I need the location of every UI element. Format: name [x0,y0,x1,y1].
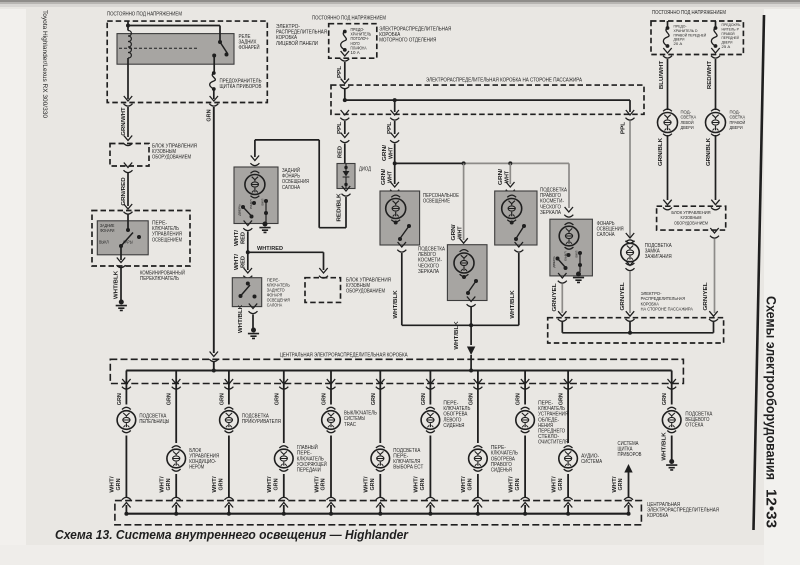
fuse D правой передней двери [667,21,669,27]
svg-text:ОБОРУДОВАНИЕМ: ОБОРУДОВАНИЕМ [152,155,191,161]
svg-text:PPL: PPL [337,121,343,134]
node: return bus junction (аудиосистема) [566,512,570,516]
svg-text:ПЕРЕДАЧИ: ПЕРЕДАЧИ [297,468,321,474]
svg-text:WHT/: WHT/ [267,476,273,493]
svg-text:GRN: GRN [662,393,668,405]
svg-text:ПОД-: ПОД- [681,110,692,116]
wire to return bus (подсветка пепельницы) [125,436,127,498]
svg-text:НА СТОРОНЕ ПАССАЖИРА: НА СТОРОНЕ ПАССАЖИРА [641,307,694,313]
sidebar divider line [754,15,765,530]
wire GRN drop (подсветка прикуривателя) [228,371,230,405]
svg-text:РАСПРЕДЕЛИТЕЛЬНАЯ: РАСПРЕДЕЛИТЕЛЬНАЯ [641,296,686,302]
svg-text:СИДЕНЬЯ: СИДЕНЬЯ [443,423,464,429]
wire to return bus (главный переключатель ускоряющей передачи) [283,474,285,497]
svg-text:ВЫКЛ: ВЫКЛ [564,251,568,260]
wire to return bus (переключатель обогрева правого сиденья) [477,474,479,497]
svg-text:ОБОРУДОВАНИЕМ: ОБОРУДОВАНИЕМ [346,289,385,295]
connector into body control box [124,136,133,146]
svg-text:WHT: WHT [388,146,394,159]
connector below right mirror box [514,242,523,252]
svg-text:БЛОК УПРАВЛЕНИЯ: БЛОК УПРАВЛЕНИЯ [671,210,711,216]
node: return bus junction (подсветка переключателя выбора ECT) [378,512,382,516]
node: return bus junction (выключатель системы TRAC) [329,512,333,516]
svg-text:12•33: 12•33 [763,489,780,528]
svg-text:WHT/: WHT/ [461,476,467,493]
lamp: переключатель обогрева правого сиденья [474,446,483,448]
relay internal dashed link [119,47,197,49]
svg-text:НЕРОМ: НЕРОМ [189,465,204,471]
wire to ground (rear-lamp switch) [252,315,254,329]
wire RED/WHT down [715,59,717,110]
node: GRN feed junction [212,369,216,373]
svg-text:GRN: GRN [219,478,225,490]
svg-text:GRN: GRN [166,478,172,490]
relay switch contact and arm [218,40,222,44]
connector into salon lamp box [564,207,573,217]
switch: gray box задние фонари/выкл/фары [97,221,148,255]
svg-text:RED/WHT: RED/WHT [707,60,713,89]
rear-lamp switch contacts [246,282,250,286]
svg-text:СВЕТКА: СВЕТКА [730,115,746,121]
svg-text:WHT/: WHT/ [508,476,514,493]
svg-text:ПРИБОРОВ: ПРИБОРОВ [618,452,642,458]
lamp: подсветка правой двери [711,109,720,111]
svg-text:GRN: GRN [468,478,474,490]
node: GRN/WHT bus junction [393,161,397,165]
svg-text:WHT/BLK: WHT/BLK [510,290,516,319]
svg-text:WHT/BLK: WHT/BLK [113,271,119,300]
arrow to instrument panel system [624,464,632,473]
lamp box: персональное освещение (gray) [380,191,420,245]
node: WHT/BLK junction under mirror boxes [469,323,473,327]
svg-text:GRN/YEL: GRN/YEL [620,281,626,310]
arrow into central box (WHT/BLK feed) [467,347,475,356]
svg-text:ПОСТОЯННО ПОД НАПРЯЖЕНИЕМ: ПОСТОЯННО ПОД НАПРЯЖЕНИЕМ [312,16,386,22]
svg-text:GRN: GRN [558,478,564,490]
junction box: электрораспределительная коробка лицевой панели (dashed) [107,21,267,102]
lamp: аудиосистема [564,446,573,448]
svg-text:WHT/: WHT/ [234,253,240,270]
lamp: подсветка вещевого отсека [667,407,676,409]
connector into right body control box (left) [663,200,672,210]
svg-text:ЗЕРКАЛА: ЗЕРКАЛА [418,269,439,275]
wire BLU/WHT down [667,59,669,110]
ground (rear-lamp switch) [251,328,256,333]
wire drop 2 inside box [394,100,396,112]
svg-text:WHT/: WHT/ [110,476,116,493]
wire WHT/BLK to ground (glovebox) [671,436,673,461]
svg-text:WHT/RED: WHT/RED [257,246,283,252]
lamp box: фонарь освещения салона (gray) [550,219,593,276]
fuse: предохранитель потолочного плафона [343,30,347,34]
wire GRN feed to bus [213,362,215,371]
connector into return bus (подсветка переключателя выбора ECT) [376,497,385,507]
svg-text:PPL: PPL [337,65,343,78]
wire GRN drop (переключатель обогрева левого сиденья) [429,371,431,405]
node: passenger box junction 1 [343,98,347,102]
lamp box: подсветка левого косметического зеркала (gray) [447,245,487,301]
node: relay feed junction [126,24,130,28]
svg-text:GRN: GRN [274,393,280,405]
internal wires of passenger box 2 [562,322,713,333]
svg-text:ВКЛ: ВКЛ [261,199,265,206]
svg-text:WHT/BLK: WHT/BLK [393,290,399,319]
svg-text:ДВЕРИ: ДВЕРИ [730,125,744,131]
junction box: электрораспределительная коробка на стороне пассажира 2 (dashed) [548,318,724,343]
svg-text:WHT/BLK: WHT/BLK [238,305,244,334]
fuse box: right front door fuses (dashed) [651,21,743,55]
connector into return bus (аудиосистема) [564,497,573,507]
ground (combination switch) [119,300,124,305]
svg-text:САЛОНА: САЛОНА [597,232,615,238]
wire GRN/BLK right down [715,135,717,200]
connector out of central box (переключатель устранения обледенения стеклоочистителя) [521,379,530,389]
svg-text:ОЧИСТИТЕЛЯ: ОЧИСТИТЕЛЯ [538,440,568,446]
wire to return bus (аудиосистема) [567,474,569,497]
connector below left mirror box [467,297,476,307]
connector into right mirror box [506,182,515,192]
svg-text:КОРОБКА: КОРОБКА [647,513,668,519]
svg-text:WHT/: WHT/ [364,476,370,493]
connector exit PPL (left drop) [340,110,349,120]
svg-text:GRN: GRN [116,478,122,490]
connector into return bus (главный переключатель ускоряющей передачи) [279,497,288,507]
box: блок управления кузовным оборудованием (mid dashed) [305,278,341,303]
connector below fuse P [711,48,720,58]
svg-text:ДВЕРЬ: ДВЕРЬ [238,204,242,216]
svg-text:ЭЛЕКТРО-: ЭЛЕКТРО- [641,291,662,297]
svg-text:GRN: GRN [559,393,565,405]
connector below salon lamp box [558,273,567,283]
connector below right body control box [710,228,719,238]
connector into left mirror box [459,238,468,248]
node: passenger box junction 2 [393,98,397,102]
wire to return bus (переключатель обогрева левого сиденья) [429,436,431,498]
svg-text:PPL: PPL [620,121,626,134]
wire to return bus (подсветка переключателя выбора ECT) [379,474,381,497]
wire drop to left mirror box [463,163,465,240]
lamp box: задний фонарь освещения салона (gray) [234,167,278,224]
svg-text:GRN/WHT: GRN/WHT [121,106,127,135]
lamp: главный переключатель ускоряющей передачи [279,446,288,448]
lamp bulb (rear interior) [251,171,260,173]
node: WHT/BLK feed junction [469,369,473,373]
connector at box exit GRN/WHT [124,96,133,106]
box: блок управления кузовным оборудованием (right dashed) [657,206,726,230]
wire to return bus (переключатель устранения обледенения стеклоочистителя) [524,436,526,498]
svg-text:GRN: GRN [219,393,225,405]
svg-text:СИДЕНЬЯ: СИДЕНЬЯ [491,468,512,474]
connector below fuse D [663,48,672,58]
svg-text:GRN: GRN [371,393,377,405]
svg-text:WHT/BLK: WHT/BLK [454,321,460,350]
wire GRN drop (подсветка пепельницы) [125,371,127,405]
left mirror switch [462,275,466,279]
svg-text:GRN: GRN [274,478,280,490]
wire WHT/BLK to ground [120,268,122,301]
svg-text:GRN: GRN [322,393,328,405]
switch wire and contacts [127,214,129,229]
connector into light control switch box [124,204,133,214]
connector into return bus (блок управления кондиционером) [172,497,181,507]
svg-text:GRN: GRN [421,393,427,405]
connector into passenger junction box [340,79,349,89]
connector out of central box (подсветка переключателя выбора ECT) [376,379,385,389]
wire WHT/BLK center feed down [470,307,472,345]
svg-text:ПОСТОЯННО ПОД НАПРЯЖЕНИЕМ: ПОСТОЯННО ПОД НАПРЯЖЕНИЕМ [107,12,182,18]
wire to relay switch contact [128,26,220,41]
connector below rear-lamp switch box [249,304,258,314]
wire WHT/RED horizontal to body control box [248,252,324,270]
connector at box exit GRN [209,96,218,106]
node: passenger box 2 junction [628,331,632,335]
svg-text:WHT/: WHT/ [314,476,320,493]
node: return bus junction (переключатель обогрева левого сиденья) [428,512,432,516]
connector into right body control box (right) [711,200,720,210]
wire WHT/BLK down from right mirror [471,253,519,325]
connector into return bus (переключатель обогрева правого сиденья) [473,497,482,507]
svg-text:GRN/: GRN/ [382,144,388,161]
switch box: переключатель управления освещением (dashed) [92,211,190,267]
connector out of central box (переключатель обогрева левого сиденья) [426,379,435,389]
connector out of central box (главный переключатель ускоряющей передачи) [279,379,288,389]
svg-text:RED: RED [337,146,343,158]
connector below personal light box [397,242,406,252]
connector into passenger box 2 (middle) [626,311,635,321]
connector into return bus (instrument panel) [624,497,633,507]
connector out of central box (аудиосистема) [564,379,573,389]
svg-text:RED: RED [241,256,247,268]
svg-text:GRN: GRN [370,478,376,490]
wire GRN/RED down [127,172,129,206]
ground at salon lamp box [579,265,581,272]
svg-text:ПОД-: ПОД- [730,110,741,116]
junction box: электрораспределительная коробка на стороне пассажира (dashed) [331,85,644,114]
connector into rear interior lamp box [250,156,259,166]
connector into mid body control box [319,268,328,278]
svg-text:КУЗОВНЫМ: КУЗОВНЫМ [681,215,702,221]
connector into passenger box 2 (right) [709,311,718,321]
wire from relay switch to fuse [212,54,216,58]
svg-text:ФОНАРИ: ФОНАРИ [100,228,114,233]
node: return bus junction (подсветка прикуривателя) [227,512,231,516]
wire RED to diode [344,144,346,164]
rear lamp switch contacts [241,205,245,209]
connector out of central box (подсветка пепельницы) [122,379,131,389]
ground (glovebox lamp) [669,459,674,464]
lamp: подсветка левой двери [663,109,672,111]
wire GRN drop (выключатель системы TRAC) [330,371,332,405]
svg-text:САЛОНА: САЛОНА [267,303,283,308]
connector out of central box (подсветка прикуривателя) [224,379,233,389]
relay: реле задних фонарей (gray box) [117,34,234,65]
wire PPL down to ignition lamp [629,121,631,238]
bus GRN/WHT horizontal [395,162,462,164]
svg-text:ПЕРЕКЛЮЧАТЕЛЬ: ПЕРЕКЛЮЧАТЕЛЬ [140,276,179,282]
svg-text:ВЫКЛ: ВЫКЛ [249,199,253,208]
wire WHT/BLK down from personal light [402,253,471,325]
svg-text:Схема 13. Система внутреннего: Схема 13. Система внутреннего освещения … [55,527,409,542]
wire GRN drop (аудиосистема) [567,371,569,444]
connector out of switch box [117,258,126,268]
lamp: подсветка переключателя выбора ECT [376,446,385,448]
ground at rear lamp box [265,213,267,222]
connector below rear lamp box [243,221,252,231]
lamp: блок управления кондиционером [172,446,181,448]
wire GRN/YEL ignition down [629,271,631,313]
node: return bus junction (блок управления кондиционером) [174,512,178,516]
node: bus junction to right mirror [508,161,512,165]
svg-text:RED/BLK: RED/BLK [336,193,342,222]
svg-text:ЩИТКА ПРИБОРОВ: ЩИТКА ПРИБОРОВ [220,84,262,90]
right mirror switch [510,221,514,225]
lamp box: подсветка правого косметического зеркала (gray) [495,191,537,245]
connector out of central box (выключатель системы TRAC) [327,379,336,389]
svg-text:СИСТЕМА: СИСТЕМА [581,459,602,465]
svg-text:ФОНАРЕЙ: ФОНАРЕЙ [239,43,260,51]
svg-text:GRN: GRN [515,478,521,490]
svg-text:ЭЛЕКТРОРАСПРЕДЕЛИТЕЛЬНАЯ КОРО: ЭЛЕКТРОРАСПРЕДЕЛИТЕЛЬНАЯ КОРОБКА НА СТОР… [426,78,582,84]
connector exit PPL (mid drop) [390,110,399,120]
svg-text:WHT/: WHT/ [212,476,218,493]
wire to return bus (подсветка прикуривателя) [228,436,230,498]
wire from supply to relay coil [127,21,129,30]
svg-text:ВЫБОРА ЕСТ: ВЫБОРА ЕСТ [393,465,424,471]
lamp: подсветка замка зажигания [626,240,635,242]
svg-text:GRN/: GRN/ [498,168,504,185]
second connector on left drop [344,121,346,134]
lamp: подсветка прикуривателя [225,407,234,409]
connector below ignition lamp [626,261,635,271]
wire WHT/RED down [247,232,249,253]
svg-text:RED: RED [241,232,247,244]
wire GRN drop (подсветка переключателя выбора ECT) [379,371,381,444]
svg-text:ДВЕРИ: ДВЕРИ [681,125,695,131]
connector below body control box [124,163,133,173]
node: return bus junction (переключатель устранения обледенения стеклоочистителя) [523,512,527,516]
wire from switch down [120,246,122,260]
wire GRN long down to central box [213,107,215,353]
connector below diode [342,186,351,196]
svg-text:WHT/: WHT/ [551,476,557,493]
svg-text:МОТОРНОГО ОТДЕЛЕНИЯ: МОТОРНОГО ОТДЕЛЕНИЯ [379,38,436,44]
wire PPL down [344,62,346,80]
node: bus junction to left mirror [462,161,466,165]
svg-text:ДИОД: ДИОД [359,167,371,173]
wire to return bus (выключатель системы TRAC) [330,436,332,498]
bottom return bus [126,513,630,515]
svg-text:ДВЕРЬ: ДВЕРЬ [552,256,556,268]
svg-text:WHT/BLK: WHT/BLK [661,432,667,461]
wire GRN/WHT down to personal light [394,163,396,184]
svg-text:ПОСТОЯННО ПОД НАПРЯЖЕНИЕМ: ПОСТОЯННО ПОД НАПРЯЖЕНИЕМ [652,10,726,16]
svg-text:BLU/WHT: BLU/WHT [659,60,665,89]
connector into rear-lamp switch box [243,268,252,278]
wire GRN/WHT to junction [394,144,396,164]
diode (gray box) [337,164,355,189]
connector into personal light box [390,182,399,192]
svg-text:20 А: 20 А [674,41,683,46]
lamp bulb (salon lamp) [565,223,574,225]
second connector on mid drop [394,121,396,134]
svg-text:СВЕТКА: СВЕТКА [681,115,697,121]
svg-text:WHT: WHT [457,226,463,239]
lamp: переключатель устранения обледенения стеклоочистителя [521,407,530,409]
central box upper (dashed) [110,359,683,383]
connector into return bus (переключатель устранения обледенения стеклоочистителя) [521,497,530,507]
svg-text:GRN: GRN [618,478,624,490]
svg-text:GRN/: GRN/ [451,224,457,241]
connector into return bus (подсветка прикуривателя) [224,497,233,507]
connector out of central box (блок управления кондиционером) [172,379,181,389]
svg-text:ОСВЕЩЕНИЕ: ОСВЕЩЕНИЕ [423,199,450,205]
connector into return bus (выключатель системы TRAC) [327,497,336,507]
fuse box: эл. коробка моторного отделения (dashed) [329,24,377,59]
svg-text:10 А: 10 А [351,50,360,55]
connector out of central box (glovebox lamp) [671,371,673,405]
svg-text:GRN: GRN [167,393,173,405]
connector above ignition lamp [626,233,635,243]
connector out of central box (переключатель обогрева правого сиденья) [473,379,482,389]
wire down to rear lamp switch [247,252,249,270]
svg-text:GRN/YEL: GRN/YEL [703,281,709,310]
fuse P правой передней двери [715,21,717,27]
wire GRN/YEL right down [714,239,716,313]
main bus of central box [126,369,672,371]
node: return bus junction (instrument panel) [627,512,631,516]
wire GRN drop (блок управления кондиционером) [175,371,177,444]
lamp: подсветка пепельницы [122,407,131,409]
svg-text:PPL: PPL [387,121,393,134]
node: return bus junction (главный переключатель ускоряющей передачи) [282,512,286,516]
svg-text:GRN/YEL: GRN/YEL [552,282,558,311]
connector into return bus (подсветка пепельницы) [122,497,131,507]
svg-text:ПЕПЕЛЬНИЦЫ: ПЕПЕЛЬНИЦЫ [139,419,169,425]
relay coil wire down [127,58,129,99]
connector into return bus (переключатель обогрева левого сиденья) [426,497,435,507]
lamp bulb (personal light) [391,195,400,197]
connector into passenger box 2 (left) [558,311,567,321]
lamp: переключатель обогрева левого сиденья [426,407,435,409]
svg-text:Схемы электрооборудования: Схемы электрооборудования [764,296,779,480]
wire RED/BLK loop to rear interior lamp [255,140,346,228]
svg-text:Toyota Highlander/Lexus RX 300: Toyota Highlander/Lexus RX 300/330 [41,10,48,119]
svg-text:GRN: GRN [516,393,522,405]
svg-text:GRN: GRN [321,478,327,490]
svg-text:WHT/: WHT/ [234,229,240,246]
svg-text:WHT: WHT [387,170,393,183]
svg-text:ЦЕНТРАЛЬНАЯ ЭЛЕКТРОРАСПРЕДЕЛИ: ЦЕНТРАЛЬНАЯ ЭЛЕКТРОРАСПРЕДЕЛИТЕЛЬНАЯ КОР… [280,353,408,359]
wire to return bus (блок управления кондиционером) [175,474,177,497]
svg-text:GRN/BLK: GRN/BLK [658,138,664,167]
salon lamp switch contacts [556,257,560,261]
node: return bus junction (переключатель обогрева правого сиденья) [476,512,480,516]
svg-text:GRN/RED: GRN/RED [121,177,127,206]
fuse: предохранитель щитка приборов [212,71,216,75]
svg-text:GRN: GRN [420,478,426,490]
svg-text:ЗЕРКАЛА: ЗЕРКАЛА [540,210,561,216]
svg-text:GRN: GRN [117,393,123,405]
connector exit PPL (right drop) [626,110,635,120]
personal light switch [394,221,398,225]
wire drop to right mirror box [509,163,511,184]
svg-text:ОСВЕЩЕНИЕМ: ОСВЕЩЕНИЕМ [152,237,182,243]
wire GRN/BLK left down [667,135,669,200]
svg-text:САЛОНА: САЛОНА [282,185,300,191]
wire from fuse to box edge [213,89,215,99]
svg-text:WHT/: WHT/ [414,476,420,493]
svg-text:25 А: 25 А [722,44,731,49]
